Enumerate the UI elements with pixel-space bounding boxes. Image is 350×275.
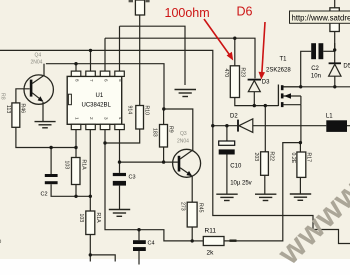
wire C4 bottom stub bbox=[138, 251, 140, 265]
resistor R46 bbox=[0, 93, 26, 127]
svg-text:113: 113 bbox=[5, 105, 11, 113]
pin 5 box bbox=[115, 71, 125, 76]
resistor R16 lower 103 bbox=[78, 211, 101, 235]
ground GND1 pin5 bbox=[175, 90, 197, 97]
node pin1 bbox=[74, 146, 77, 149]
wire R23 top stem bbox=[234, 38, 236, 66]
wire pin2 stem down to R16 bbox=[89, 130, 91, 211]
wire MOSFET drain line bbox=[283, 86, 350, 88]
resistor Rsn top right bbox=[330, 8, 339, 32]
wire pin7 stem bbox=[90, 50, 92, 71]
svg-text:7: 7 bbox=[89, 79, 94, 82]
wire R1A bottom stem bbox=[75, 185, 77, 197]
wire C10 top stem bbox=[226, 126, 228, 141]
svg-text:R45: R45 bbox=[197, 203, 203, 213]
ground GND3 C3 bbox=[109, 210, 130, 217]
node D3 gate bbox=[253, 104, 256, 107]
wire bus1 GND from pin5 to left ground bbox=[120, 26, 186, 85]
MOSFET T1 2SK2628 bbox=[266, 57, 301, 108]
resistor R1A upper bbox=[64, 158, 87, 185]
ground GND4 C10 bbox=[216, 194, 237, 200]
wire MOSFET source down to R17 node bbox=[300, 105, 302, 143]
svg-text:2k: 2k bbox=[207, 250, 215, 257]
op-amp U1 UC3842 IC body bbox=[67, 71, 124, 130]
svg-text:3: 3 bbox=[104, 117, 109, 120]
svg-text:R17: R17 bbox=[306, 153, 312, 163]
svg-text:R1A: R1A bbox=[95, 213, 101, 224]
svg-text:183: 183 bbox=[152, 128, 158, 137]
node D5 drain bbox=[333, 85, 336, 88]
svg-text:C2: C2 bbox=[41, 192, 48, 198]
wire R11 right to source net bbox=[224, 143, 300, 241]
node pin7-bus3 bbox=[89, 49, 92, 52]
node R16 top bbox=[89, 195, 92, 198]
wire R46 bottom to node A bbox=[16, 127, 76, 147]
svg-text:10n: 10n bbox=[311, 73, 321, 79]
node pin3 wire bbox=[103, 141, 106, 144]
svg-text:1: 1 bbox=[75, 117, 80, 120]
resistor R9 bbox=[152, 125, 174, 148]
node pin8-bus4 bbox=[74, 62, 77, 65]
svg-text:273: 273 bbox=[180, 202, 186, 211]
svg-text:8: 8 bbox=[75, 79, 80, 82]
resistor R45 bbox=[180, 202, 204, 227]
red arrow to R23 bbox=[204, 19, 233, 61]
svg-text:UC3842BL: UC3842BL bbox=[82, 103, 112, 109]
svg-text:C4: C4 bbox=[148, 241, 155, 247]
wire R9 top stem bbox=[163, 109, 165, 125]
wire joint artifact bbox=[230, 239, 237, 241]
svg-text:2: 2 bbox=[89, 117, 94, 120]
capacitor C2 left bbox=[41, 174, 58, 198]
svg-text:R11: R11 bbox=[205, 228, 217, 235]
wire R16 bottom stub bbox=[89, 235, 91, 262]
node pin4 base wire bbox=[118, 160, 121, 163]
wire R11 left bbox=[192, 240, 203, 242]
svg-text:D6: D6 bbox=[237, 5, 253, 19]
diode D2 bbox=[230, 114, 253, 133]
svg-text:D2: D2 bbox=[230, 114, 238, 120]
capacitor C2 snubber 10n bbox=[311, 43, 323, 79]
wire D3 bottom stem bbox=[253, 92, 255, 106]
diode D5 bbox=[329, 63, 350, 76]
wire R9 bottom stem bbox=[163, 147, 165, 162]
wire pin6 stem bbox=[104, 38, 106, 71]
wire bus3 Vcc from left edge to down-drop bbox=[0, 50, 350, 243]
wire R45 bottom stem bbox=[191, 227, 193, 241]
ground GND2 Q4 emitter bbox=[35, 122, 56, 128]
wire drain to snubber C2 bbox=[301, 51, 312, 87]
svg-text:5: 5 bbox=[118, 79, 123, 82]
wire snubber node vertical bbox=[334, 43, 336, 63]
svg-text:2SK2628: 2SK2628 bbox=[266, 68, 291, 74]
red arrow to D3 bbox=[259, 22, 266, 80]
svg-text:R22: R22 bbox=[269, 152, 275, 162]
svg-text:10µ 25v: 10µ 25v bbox=[230, 181, 251, 187]
svg-text:Q3: Q3 bbox=[180, 131, 187, 137]
resistor R23 bbox=[223, 66, 246, 98]
svg-text:R1A: R1A bbox=[81, 160, 87, 171]
wire C2 top stem bbox=[50, 148, 52, 175]
node drain riser bbox=[299, 85, 302, 88]
wire R9 junction to Q3 collector bbox=[164, 109, 193, 151]
wire bottom stub right bbox=[90, 255, 115, 262]
pin 2 box bbox=[86, 124, 96, 129]
svg-text:0.2E: 0.2E bbox=[290, 153, 296, 164]
node R22 gate bbox=[264, 104, 267, 107]
node D2 left bbox=[211, 124, 214, 127]
svg-text:Q4: Q4 bbox=[35, 53, 42, 59]
wire bus4 from Q4 collector to R9 junction bbox=[46, 64, 164, 109]
svg-text:D3: D3 bbox=[262, 80, 270, 86]
wire R23 bottom to gate bbox=[235, 98, 279, 106]
wire Q3 base wire bbox=[120, 161, 178, 163]
wire Q4 emitter to ground bbox=[42, 102, 44, 121]
wire R17 bottom to ground bbox=[299, 177, 301, 193]
wire bus2 from pin6 to D3 bbox=[105, 38, 255, 78]
resistor Rtop (cut off at top) bbox=[129, 0, 150, 15]
svg-text:914: 914 bbox=[127, 106, 133, 115]
svg-text:C3: C3 bbox=[129, 175, 136, 181]
wire R1A top stem bbox=[75, 148, 77, 158]
capacitor C4 bbox=[133, 240, 155, 251]
pin 8 box bbox=[71, 71, 81, 76]
wire R22 from gate node down bbox=[264, 106, 266, 152]
wire Q3 emitter to R45 bbox=[191, 176, 193, 202]
wire snubber resistor bottom bbox=[334, 32, 336, 50]
wire pin3 stem down then to C4 wire bbox=[105, 130, 192, 241]
node R16 bottom bbox=[89, 253, 92, 256]
wire D2 anode to L1 bbox=[253, 125, 326, 127]
resistor R10 bbox=[127, 106, 150, 130]
node snubber junction bbox=[333, 48, 336, 51]
url watermark box bbox=[290, 11, 350, 23]
node R45 bottom bbox=[191, 239, 194, 242]
svg-text:C10: C10 bbox=[230, 164, 242, 170]
wire L1 right stub bbox=[347, 125, 350, 127]
node R9 top bbox=[162, 107, 165, 110]
wire snubber C2 right to node bbox=[323, 50, 334, 52]
wire pin3 to R10 bottom bbox=[105, 129, 140, 143]
svg-text:D5: D5 bbox=[343, 64, 350, 70]
capacitor C3 bbox=[113, 173, 136, 186]
wire C10 bottom to ground bbox=[226, 155, 228, 194]
node C10 top bbox=[225, 124, 228, 127]
wire pin8 stem bbox=[75, 64, 77, 71]
resistor R17 bbox=[290, 152, 312, 177]
wire D5 bottom stem bbox=[334, 76, 336, 86]
pin 4 box bbox=[115, 124, 125, 129]
svg-text:R8: R8 bbox=[0, 93, 6, 100]
white bottom band bbox=[0, 259, 350, 275]
wire top resistor top stub bbox=[139, 0, 141, 1]
svg-text:203: 203 bbox=[253, 153, 259, 162]
wire C2 bottom to R16 node bbox=[51, 184, 90, 196]
wire pin5 stem bbox=[119, 26, 121, 71]
ground GND5 R22 bbox=[255, 194, 276, 200]
pin 7 box bbox=[86, 71, 96, 76]
pin 3 box bbox=[100, 124, 110, 129]
transistor Q4 PNP bbox=[24, 53, 53, 105]
wire C3 bottom to ground bbox=[119, 186, 121, 209]
ground GND6 R17 bbox=[290, 194, 311, 200]
inductor L1 black box bbox=[326, 114, 347, 132]
wire pin1 stem to node A bbox=[75, 130, 77, 148]
wire R22 bottom to ground bbox=[264, 175, 266, 193]
svg-text:2N04: 2N04 bbox=[31, 60, 43, 66]
node source R17 bbox=[299, 141, 302, 144]
pin 1 box bbox=[71, 124, 81, 129]
svg-text:103: 103 bbox=[78, 214, 84, 223]
wire C4 top stem bbox=[138, 230, 140, 241]
wire top resistor vertical to R10 bbox=[139, 15, 141, 106]
svg-text:6: 6 bbox=[104, 79, 109, 82]
svg-text:R46: R46 bbox=[20, 104, 26, 114]
svg-text:U1: U1 bbox=[96, 93, 104, 99]
svg-text:4: 4 bbox=[118, 117, 123, 120]
node C4 top bbox=[137, 228, 140, 231]
node R9 bottom bbox=[162, 160, 165, 163]
wire R17 top stem bbox=[299, 143, 301, 152]
svg-text:C2: C2 bbox=[311, 66, 319, 72]
node R1A bottom bbox=[74, 195, 77, 198]
svg-text:L1: L1 bbox=[326, 114, 333, 120]
wire D2 net from bus3 drop to L1 bbox=[213, 125, 237, 127]
resistor R11 horizontal bbox=[203, 228, 224, 257]
svg-text:R9: R9 bbox=[168, 126, 174, 133]
transistor Q3 NPN bbox=[173, 131, 201, 177]
resistor R22 bbox=[253, 152, 275, 176]
wire pin4 stem down to C3 bbox=[119, 130, 121, 173]
node R23-bus2 bbox=[233, 37, 236, 40]
svg-text:103: 103 bbox=[64, 161, 70, 170]
svg-text:100ohm: 100ohm bbox=[165, 6, 210, 20]
capacitor C10 electrolytic bbox=[219, 141, 252, 187]
svg-text:R23: R23 bbox=[240, 68, 246, 78]
node C2 top bbox=[49, 146, 52, 149]
svg-text:2N04: 2N04 bbox=[177, 139, 189, 145]
wire snubber resistor top stub bbox=[334, 0, 336, 8]
svg-text:R10: R10 bbox=[144, 106, 150, 116]
svg-text:http://www.satdre: http://www.satdre bbox=[292, 14, 350, 23]
svg-text:T1: T1 bbox=[280, 57, 288, 63]
pin 6 box bbox=[100, 71, 110, 76]
diode D3 bbox=[248, 80, 271, 92]
wire R46 top from Q4 base bbox=[16, 89, 30, 103]
svg-text:470: 470 bbox=[223, 69, 229, 78]
